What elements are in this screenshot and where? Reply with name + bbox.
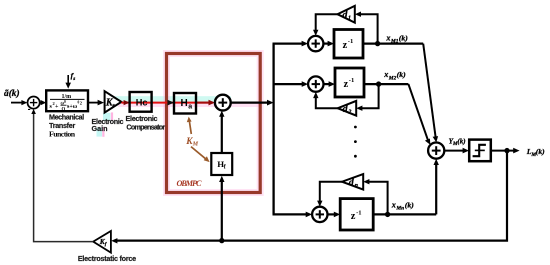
label YM(k)	[449, 138, 466, 148]
gain d1 triangle	[338, 6, 355, 23]
svg-text:-: -	[28, 104, 31, 114]
wire z1 output	[363, 42, 423, 44]
svg-text:OBMPC: OBMPC	[177, 179, 202, 188]
gain Kf triangle electrostatic	[93, 231, 111, 253]
svg-text:-1: -1	[349, 77, 355, 84]
gain Ks triangle	[105, 91, 122, 112]
input fs arrow	[65, 75, 71, 89]
junction output feedback tap	[504, 148, 509, 153]
OBMPC box	[167, 54, 261, 193]
wire row1 summer to z1	[323, 41, 334, 47]
svg-text:Electrostatic force: Electrostatic force	[78, 254, 136, 263]
block Hc	[130, 92, 152, 112]
wire z2 output	[364, 83, 408, 85]
svg-text:x: x	[385, 34, 390, 43]
svg-text:z: z	[344, 79, 349, 90]
distribution bus vertical	[272, 44, 274, 215]
svg-text:M1: M1	[390, 39, 399, 45]
svg-text:Compensator: Compensator	[126, 123, 165, 132]
label xM1(k)	[385, 34, 408, 45]
row2 summing junction	[308, 76, 323, 91]
svg-text:z: z	[343, 40, 348, 51]
svg-text:Function: Function	[49, 129, 76, 138]
label xM2(k)	[383, 70, 406, 81]
diagonal wire xM1 to final summer	[423, 44, 438, 143]
arrowhead into d1	[355, 12, 361, 17]
arrowhead into S2 (dark red)	[209, 100, 215, 106]
wire d2 to row2 summer	[313, 92, 338, 108]
arrowhead into dn	[363, 179, 369, 184]
svg-text:a: a	[188, 103, 192, 110]
wire mechanical block to Ks	[88, 100, 104, 106]
arrowhead into Hc	[124, 100, 130, 105]
final summing junction	[428, 143, 444, 159]
block z-1 row n	[340, 199, 373, 230]
bus branch to row1	[273, 41, 309, 47]
diagonal wire xM2 to final summer	[408, 84, 430, 145]
block mechanical transfer function	[46, 90, 88, 112]
svg-text:(k): (k)	[397, 70, 406, 79]
label fs	[71, 71, 76, 82]
arrow KM to Hf	[191, 147, 210, 163]
row2 feedback wire down and left	[360, 84, 379, 108]
svg-text:Electronic: Electronic	[126, 114, 158, 123]
junction bottom tap to Hf	[219, 238, 224, 243]
caption electronic gain	[92, 117, 124, 133]
svg-text:-1: -1	[356, 209, 362, 216]
arrowhead into Kf	[111, 238, 117, 243]
svg-text:s: s	[72, 76, 75, 82]
svg-text:z: z	[351, 211, 356, 222]
wire quantizer output	[491, 148, 520, 154]
svg-text:0: 0	[64, 100, 66, 104]
minus sign at S1	[28, 104, 31, 114]
wire Hf to S2	[219, 111, 224, 153]
gain d2 triangle	[338, 101, 357, 116]
caption electrostatic force	[78, 254, 136, 263]
svg-text:M: M	[192, 142, 199, 148]
svg-text:+: +	[55, 104, 59, 110]
wire S2 to distribution bus	[231, 100, 274, 106]
svg-text:Mn: Mn	[395, 206, 404, 212]
junction row2 output	[376, 81, 381, 86]
svg-text:2: 2	[80, 101, 82, 106]
label xMn(k)	[391, 200, 414, 211]
wire d1 to row1 summer	[313, 14, 338, 36]
label KM	[185, 137, 199, 148]
caption electronic compensator	[126, 114, 166, 132]
wire dn to row n summer	[317, 182, 342, 207]
feedback wire output down and along bottom	[115, 151, 507, 241]
svg-text:1: 1	[348, 16, 351, 22]
bus branch to row n	[273, 212, 313, 218]
junction row n output	[385, 212, 390, 217]
vertical ellipsis dots	[354, 126, 357, 158]
summing junction S1	[27, 97, 39, 109]
svg-text:x: x	[383, 70, 388, 79]
label LM(k)	[526, 147, 545, 158]
arrowhead into Ha	[167, 100, 174, 106]
svg-text:(k): (k)	[457, 138, 465, 146]
artifact patches near Electronic Gain	[97, 112, 114, 136]
wire input to summer S1	[11, 100, 27, 105]
row n feedback wire up and left	[367, 182, 388, 215]
svg-text:Gain: Gain	[92, 124, 108, 133]
junction row1 output	[375, 41, 380, 46]
wire final summer to quantizer	[444, 148, 469, 154]
svg-text:Hc: Hc	[136, 98, 148, 108]
caption mechanical transfer function	[49, 113, 84, 139]
svg-text:M2: M2	[388, 75, 397, 81]
svg-text:(k): (k)	[399, 34, 408, 43]
arrow KM to Ha	[187, 117, 192, 134]
bus branch to row2	[274, 81, 309, 87]
svg-text:x: x	[391, 200, 396, 209]
block z-1 row1	[334, 30, 363, 59]
svg-text:(k): (k)	[405, 200, 414, 209]
svg-text:s+ω: s+ω	[67, 104, 78, 110]
svg-text:ã(k): ã(k)	[4, 88, 20, 99]
quantizer block	[469, 140, 491, 162]
wire xMn right and up to final summer	[434, 159, 439, 215]
row1 summing junction	[308, 36, 323, 51]
block z-1 row2	[335, 68, 364, 97]
artifact cyan band above red signal line	[104, 96, 231, 102]
wire bottom feedback into Hf	[219, 176, 224, 241]
svg-text:(k): (k)	[536, 147, 545, 156]
svg-text:2: 2	[347, 109, 351, 115]
wire row2 summer to z2	[324, 81, 336, 87]
input label a~(k)	[4, 88, 20, 99]
gain dn triangle	[342, 174, 363, 190]
wire zn output	[373, 213, 436, 215]
block Hf	[211, 153, 232, 175]
row n summing junction	[312, 207, 327, 222]
wire row n summer to zn	[328, 212, 341, 218]
artifact pink band around red signal line	[118, 102, 259, 107]
OBMPC box halo	[167, 54, 261, 193]
row1 feedback wire up and left	[358, 14, 377, 43]
wire Kf output left and up to S1	[31, 109, 93, 242]
block Ha	[174, 93, 196, 114]
red signal wire Ks to Hc to Ha to S2	[121, 102, 213, 104]
arrowhead into d2	[356, 106, 362, 111]
wire S1 to mechanical block	[40, 100, 46, 105]
svg-text:H: H	[181, 98, 188, 109]
svg-text:-1: -1	[348, 38, 354, 45]
label OBMPC	[177, 179, 202, 188]
summing junction S2	[215, 95, 231, 111]
